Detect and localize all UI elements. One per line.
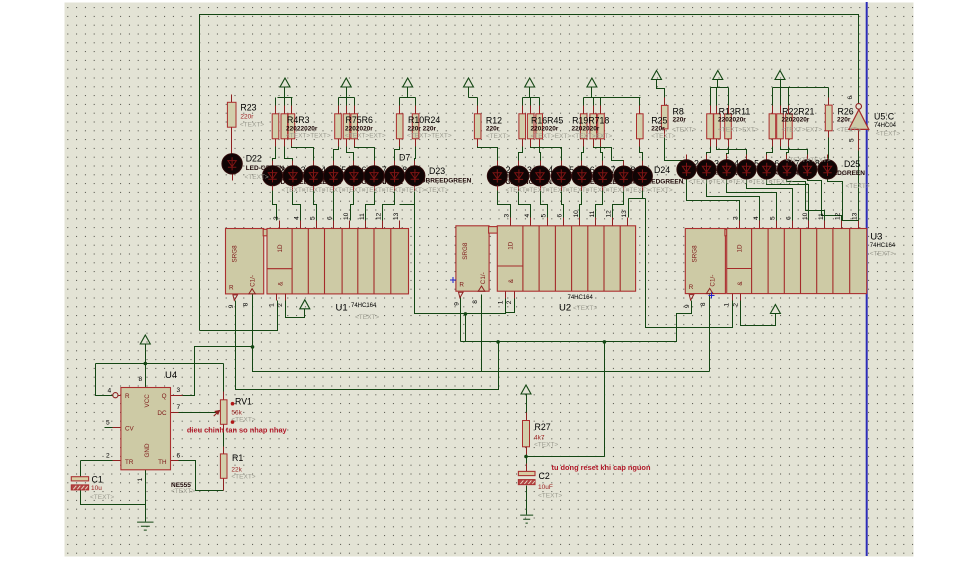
svg-text:<TEXT>EXT>: <TEXT>EXT>: [572, 133, 613, 140]
pin U2 output stubs: [510, 218, 512, 226]
wire VCC-feedback top rail: [200, 15, 859, 331]
pin 555 CV stub: [105, 427, 113, 429]
wire U1 pin1 data line: [200, 301, 278, 331]
svg-text:<TEXT>: <TEXT>: [402, 187, 426, 194]
resistors R13/R11 group: [710, 106, 712, 114]
wire 555 TR to C1: [81, 461, 113, 477]
pin U1 reset wedge: [233, 295, 238, 301]
wire R22/R21 group tee: [773, 80, 829, 106]
wires R16/R4/R15 group to LEDs: [519, 147, 562, 167]
svg-text:LED-GREEN: LED-GREEN: [246, 165, 285, 172]
wire MR net drop to R27/C2: [527, 342, 605, 457]
svg-text:RV1: RV1: [235, 396, 252, 406]
svg-text:<TEXT>: <TEXT>: [870, 251, 894, 258]
wire master reset net MR: [461, 297, 692, 342]
svg-text:6: 6: [177, 453, 181, 460]
svg-text:<TEXT>: <TEXT>: [486, 133, 510, 140]
pin R1 bottom lead: [223, 479, 225, 491]
svg-text:<TEXT>: <TEXT>: [807, 157, 831, 164]
svg-text:4: 4: [753, 216, 760, 220]
svg-text:R26: R26: [838, 106, 854, 116]
svg-text:R: R: [459, 282, 464, 289]
svg-text:<TEXT>: <TEXT>: [231, 474, 255, 481]
wire U3 pin2 to VCC arrow: [741, 301, 776, 326]
resistor RV1: [223, 392, 225, 400]
ic U4 NE555 body: [121, 388, 171, 470]
svg-text:D22: D22: [246, 154, 262, 164]
wire 555 reset pin leg: [96, 364, 113, 396]
node U3 origin cross: [709, 293, 715, 299]
svg-text:6: 6: [847, 96, 854, 100]
wire R26 to row3 LED8: [828, 138, 830, 161]
wire R8 to row3 LED1: [665, 138, 687, 163]
ic U2 output array: [497, 226, 635, 291]
wire R13/R11 group tee: [711, 80, 729, 106]
led D3: [313, 161, 315, 167]
svg-text:1: 1: [724, 303, 731, 307]
svg-text:2202020r: 2202020r: [345, 126, 373, 133]
svg-text:3: 3: [273, 216, 280, 220]
svg-text:TR: TR: [125, 459, 134, 466]
svg-text:22k: 22k: [231, 466, 242, 473]
svg-text:2202020r: 2202020r: [531, 126, 559, 133]
power arrow R16/R4/R15 group: [525, 78, 535, 87]
pin U1 output stubs: [279, 221, 281, 229]
led D9: [497, 161, 499, 167]
svg-text:8: 8: [472, 300, 479, 304]
power arrow R10/R24 group: [403, 78, 413, 87]
power arrow R8: [652, 71, 662, 80]
svg-text:12: 12: [376, 212, 383, 220]
wire R4/R3 group tee: [276, 87, 293, 106]
wire U1 pin9 to reset net: [236, 301, 499, 390]
resistor R23: [231, 95, 233, 103]
wire U2 pin2 tie: [506, 297, 515, 313]
power arrow U1 pin2: [300, 300, 310, 309]
svg-text:R1: R1: [232, 453, 243, 463]
svg-text:11: 11: [359, 213, 366, 220]
svg-text:8: 8: [139, 376, 143, 383]
led D14: [602, 161, 604, 167]
svg-text:3: 3: [177, 387, 181, 394]
wire U1 Q7 to U2 data pins: [415, 205, 506, 314]
svg-text:9: 9: [453, 302, 460, 306]
svg-text:GND: GND: [144, 443, 151, 457]
svg-text:<TEXT>: <TEXT>: [626, 187, 650, 194]
wire C1 bottom return: [81, 489, 146, 505]
resistors R10/R24 group: [399, 106, 401, 114]
svg-text:10: 10: [573, 210, 580, 218]
svg-text:220r: 220r: [837, 117, 851, 124]
led row3 7: [807, 155, 809, 161]
power arrow R22/R21 group: [775, 71, 785, 80]
svg-text:10: 10: [802, 212, 809, 220]
wire clock line to U1/U2/U3: [253, 295, 710, 372]
svg-text:D23: D23: [429, 166, 445, 176]
power arrow R27: [521, 385, 531, 394]
wire 555 Q output to clock riser: [183, 347, 253, 396]
svg-text:22022020r: 22022020r: [286, 126, 318, 133]
svg-text:R: R: [229, 284, 234, 291]
svg-text:2: 2: [506, 300, 513, 304]
pin U3 clock wedge: [706, 288, 713, 293]
svg-text:3: 3: [503, 214, 510, 218]
svg-text:R22R21: R22R21: [782, 106, 814, 116]
power arrow R12: [464, 78, 474, 87]
svg-text:220r: 220r: [651, 126, 665, 133]
svg-text:1D: 1D: [508, 241, 515, 250]
svg-text:D7: D7: [399, 153, 410, 163]
wires R12 to LEDs: [478, 147, 498, 167]
svg-text:C2: C2: [539, 471, 550, 481]
wire R16/R4/R15 group tee: [523, 87, 540, 106]
pin U2 clock wedge: [478, 286, 485, 291]
svg-text:<TEXT>EXT>: <TEXT>EXT>: [531, 133, 572, 140]
svg-text:D24: D24: [654, 165, 670, 175]
ground C2: [520, 515, 533, 523]
resistors R19/R7/R18 group: [583, 106, 585, 114]
svg-text:10: 10: [343, 212, 350, 220]
svg-text:R16R45: R16R45: [531, 115, 563, 125]
resistor R26: [828, 98, 830, 106]
svg-text:<TEXT>: <TEXT>: [876, 130, 900, 137]
led D5: [353, 161, 355, 167]
pin U1 data stubs 1 2: [276, 294, 278, 301]
svg-text:6: 6: [557, 214, 564, 218]
svg-text:6: 6: [786, 216, 793, 220]
svg-text:74HC164: 74HC164: [351, 303, 377, 309]
svg-text:13: 13: [621, 210, 628, 218]
svg-text:220r 220r: 220r 220r: [408, 126, 437, 133]
wires R13/R11 group to LEDs: [707, 147, 747, 161]
resistor R8: [664, 98, 666, 106]
wires R19/R7/R18 group to LEDs: [582, 147, 643, 167]
wire 555 DC to RV1 wiper: [179, 412, 217, 414]
led row3 6: [786, 155, 788, 161]
ic U1 74HC164 control block: [226, 229, 264, 294]
svg-text:9: 9: [684, 304, 691, 308]
led D16: [642, 161, 644, 167]
svg-text:U5:C: U5:C: [874, 111, 895, 121]
wires R22/R21 group to LEDs: [767, 147, 808, 161]
svg-text:11: 11: [818, 213, 825, 220]
resistors R22/R21 group: [772, 106, 774, 114]
svg-text:SRG8: SRG8: [691, 245, 698, 263]
svg-text:4k7: 4k7: [534, 434, 545, 441]
ic U3 74HC164 control block: [685, 229, 725, 294]
svg-text:6: 6: [327, 216, 334, 220]
svg-text:8: 8: [243, 302, 250, 306]
svg-text:R23: R23: [240, 103, 256, 113]
resistor R1: [220, 454, 227, 478]
wire U2 clock riser: [481, 295, 483, 372]
wire R27 top: [526, 395, 528, 413]
wires R4/R3 group to LEDs: [273, 147, 314, 167]
svg-text:dieu chinh tan so nhap nhay: dieu chinh tan so nhap nhay: [187, 426, 288, 435]
led D7: [394, 161, 396, 167]
svg-text:tu dong reset khi cap nguon: tu dong reset khi cap nguon: [552, 463, 651, 472]
led D8: [414, 161, 416, 167]
svg-text:<TEXT>: <TEXT>: [573, 305, 597, 312]
svg-text:13: 13: [393, 212, 400, 220]
wire R19/R7/R18 group tee: [584, 87, 641, 106]
svg-text:220r: 220r: [673, 117, 687, 124]
led D6: [374, 161, 376, 167]
svg-text:<TEXT>: <TEXT>: [245, 174, 269, 181]
svg-text:2202020r: 2202020r: [718, 117, 746, 124]
led row3 5: [766, 155, 768, 161]
capacitor C2: [518, 471, 535, 475]
power arrow R13/R11 group: [713, 71, 723, 80]
svg-text:<TEXT>: <TEXT>: [355, 314, 379, 321]
svg-text:1: 1: [497, 300, 504, 304]
wire C2 to ground: [526, 486, 528, 515]
svg-text:5: 5: [310, 216, 317, 220]
wires R7/R5/R6 group to LEDs: [334, 147, 375, 167]
svg-text:<TEXT>: <TEXT>: [837, 126, 861, 133]
led row3 3: [726, 155, 728, 161]
wire RV1 top to VCC: [223, 364, 225, 392]
led D11: [540, 161, 542, 167]
svg-text:5: 5: [540, 214, 547, 218]
wire link data2 to reset net: [465, 314, 467, 342]
svg-text:4: 4: [293, 216, 300, 220]
svg-text:13: 13: [851, 212, 858, 220]
svg-text:4: 4: [108, 388, 112, 395]
svg-text:<TEXT>: <TEXT>: [651, 133, 675, 140]
svg-text:1D: 1D: [277, 244, 284, 253]
svg-text:SRG8: SRG8: [462, 242, 469, 260]
svg-text:2202020r: 2202020r: [782, 117, 810, 124]
svg-text:U4: U4: [165, 370, 177, 381]
op 555 reset bubble: [113, 393, 118, 398]
resistors R4/R3 group: [275, 106, 277, 114]
led D12: [561, 161, 563, 167]
wire 555 GND pin to ground: [145, 470, 147, 522]
svg-text:R27: R27: [535, 422, 551, 432]
svg-text:12: 12: [605, 210, 612, 218]
capacitor C1: [71, 477, 88, 481]
power arrow U3 pin2: [770, 305, 780, 314]
svg-text:<TEXT>EXT>: <TEXT>EXT>: [345, 133, 386, 140]
resistors R16/R4/R15 group: [522, 106, 524, 114]
pin U3 data stubs 1 2: [732, 294, 734, 301]
svg-text:56k: 56k: [231, 409, 242, 416]
led D13: [581, 161, 583, 167]
svg-text:10u: 10u: [91, 485, 102, 492]
svg-text:R: R: [125, 393, 130, 400]
svg-text:<TEXT>: <TEXT>: [846, 183, 870, 190]
svg-text:C1/-: C1/-: [250, 275, 257, 287]
svg-text:<TEXT>: <TEXT>: [769, 179, 793, 186]
led row3 1: [686, 155, 688, 161]
wire U1 pin2 to VCC arrow: [286, 301, 305, 318]
svg-text:<TEXT>EXT>: <TEXT>EXT>: [718, 126, 759, 133]
wire 555 VCC pin8: [145, 345, 147, 388]
resistor R27: [526, 413, 528, 421]
sheet edge blue line: [866, 2, 868, 556]
wire U2 Q7 to U3 pin1: [629, 191, 733, 328]
wires row3 LEDs to U3 pins staircase: [687, 151, 859, 221]
resistors R12: [477, 106, 479, 114]
junction clock: [251, 345, 255, 349]
svg-text:2: 2: [106, 453, 110, 460]
svg-text:74HC04: 74HC04: [874, 123, 897, 129]
svg-text:10uF: 10uF: [538, 484, 553, 491]
svg-text:D25: D25: [844, 159, 860, 169]
svg-text:74HC164: 74HC164: [568, 295, 594, 301]
svg-text:7: 7: [177, 404, 181, 411]
svg-text:U2: U2: [559, 303, 571, 314]
led D15: [623, 161, 625, 167]
wires R10/R24 group to LEDs: [395, 147, 416, 167]
wire U3 clock riser: [709, 295, 711, 372]
svg-text:5: 5: [849, 138, 856, 142]
svg-text:C1/-: C1/-: [709, 275, 716, 287]
wire U5:C input stub: [858, 130, 860, 151]
svg-text:VCC: VCC: [144, 394, 151, 408]
svg-text:5: 5: [769, 216, 776, 220]
svg-text:220r: 220r: [486, 126, 500, 133]
pin U1 clock wedge: [249, 289, 256, 294]
wire R19 group to LED7: [594, 147, 624, 167]
pin RV1 wiper arrow: [214, 411, 220, 417]
svg-text:R12: R12: [486, 115, 502, 125]
pin U3 output stubs: [739, 221, 741, 229]
wire R8 top: [657, 80, 665, 98]
svg-text:R13R11: R13R11: [719, 106, 751, 116]
svg-text:R8: R8: [673, 106, 684, 116]
svg-text:Q: Q: [162, 393, 167, 400]
svg-text:R25: R25: [651, 115, 667, 125]
svg-text:2202020r: 2202020r: [572, 126, 600, 133]
svg-text:C1: C1: [92, 475, 103, 485]
ic U2 74HC164 control block: [456, 226, 489, 291]
svg-text:<TEXT>TEXT>: <TEXT>TEXT>: [407, 133, 452, 140]
svg-text:<TEXT>: <TEXT>: [534, 442, 558, 449]
svg-text:2: 2: [733, 303, 740, 307]
led D22: [222, 154, 242, 174]
ic U3 output array: [727, 229, 867, 294]
led D1: [272, 161, 274, 167]
svg-text:<TEXT>: <TEXT>: [240, 122, 264, 129]
svg-text:CV: CV: [125, 426, 135, 433]
led row3 4: [746, 155, 748, 161]
svg-text:3: 3: [732, 216, 739, 220]
led D2: [292, 161, 294, 167]
pin U2 data stubs 1 2: [505, 292, 507, 299]
svg-text:1: 1: [268, 303, 275, 307]
svg-text:<TEXT>: <TEXT>: [649, 187, 673, 194]
led row3 2: [706, 155, 708, 161]
ground 555: [137, 522, 153, 530]
svg-text:R75R6: R75R6: [346, 115, 373, 125]
power arrow R19/R7/R18 group: [587, 78, 597, 87]
svg-text:R: R: [689, 284, 694, 291]
pin 555 R stub: [119, 395, 121, 397]
svg-text:<TEXT>: <TEXT>: [425, 187, 449, 194]
svg-text:2: 2: [277, 303, 284, 307]
svg-text:4: 4: [524, 214, 531, 218]
svg-text:<TEXT>: <TEXT>: [672, 126, 696, 133]
svg-text:R19R718: R19R718: [572, 115, 609, 125]
svg-text:R4R3: R4R3: [287, 115, 310, 125]
led row3 8: [827, 155, 829, 161]
led D4: [333, 161, 335, 167]
svg-text:DC: DC: [157, 410, 167, 417]
svg-text:11: 11: [589, 210, 596, 217]
pin U2 reset wedge: [459, 292, 464, 298]
wire R10/R24 group tee: [400, 87, 416, 106]
svg-text:<TEXT>: <TEXT>: [231, 416, 255, 423]
wires row1 LEDs to U1 pins: [273, 191, 415, 221]
svg-text:<TEXT>TEXT>: <TEXT>TEXT>: [286, 133, 331, 140]
wire 555 TH to R1 bottom: [179, 461, 224, 491]
svg-text:U1: U1: [336, 303, 348, 314]
wire 555 vcc rail horizontal: [96, 363, 224, 365]
svg-text:R10R24: R10R24: [408, 115, 440, 125]
svg-text:8: 8: [700, 302, 707, 306]
svg-text:220r: 220r: [240, 114, 254, 121]
svg-text:1: 1: [137, 478, 144, 482]
svg-text:5: 5: [106, 420, 110, 427]
resistors R7/R5/R6 group: [338, 106, 340, 114]
gate U5:C 74HC04 inverter: [849, 110, 869, 130]
svg-text:74HC164: 74HC164: [870, 243, 896, 249]
wires row2 LEDs to U2 pins: [498, 191, 624, 218]
power arrow R4/R3 group: [280, 78, 290, 87]
pin 555 Q stub: [171, 395, 183, 397]
wire R12 tee: [469, 87, 478, 106]
power arrow 555 VCC: [140, 335, 150, 344]
svg-text:SRG8: SRG8: [232, 245, 239, 263]
svg-text:<TEXT>: <TEXT>: [90, 494, 114, 501]
svg-text:1D: 1D: [737, 244, 744, 253]
svg-text:9: 9: [228, 304, 235, 308]
led D10: [518, 161, 520, 167]
node U2 origin cross: [450, 277, 456, 283]
svg-text:TH: TH: [158, 459, 167, 466]
svg-text:<TEXT>: <TEXT>: [538, 493, 562, 500]
power arrow R7/R5/R6 group: [341, 78, 351, 87]
svg-text:C1/-: C1/-: [480, 272, 487, 284]
pin U3 reset wedge: [689, 295, 694, 301]
wire R7/R5/R6 group tee: [339, 87, 355, 106]
svg-text:12: 12: [835, 212, 842, 220]
svg-text:<TEXT>EXT>: <TEXT>EXT>: [782, 126, 823, 133]
ic U1 output array: [267, 229, 409, 294]
svg-text:<TEXT>: <TEXT>: [171, 488, 195, 495]
svg-text:U3: U3: [870, 232, 882, 243]
